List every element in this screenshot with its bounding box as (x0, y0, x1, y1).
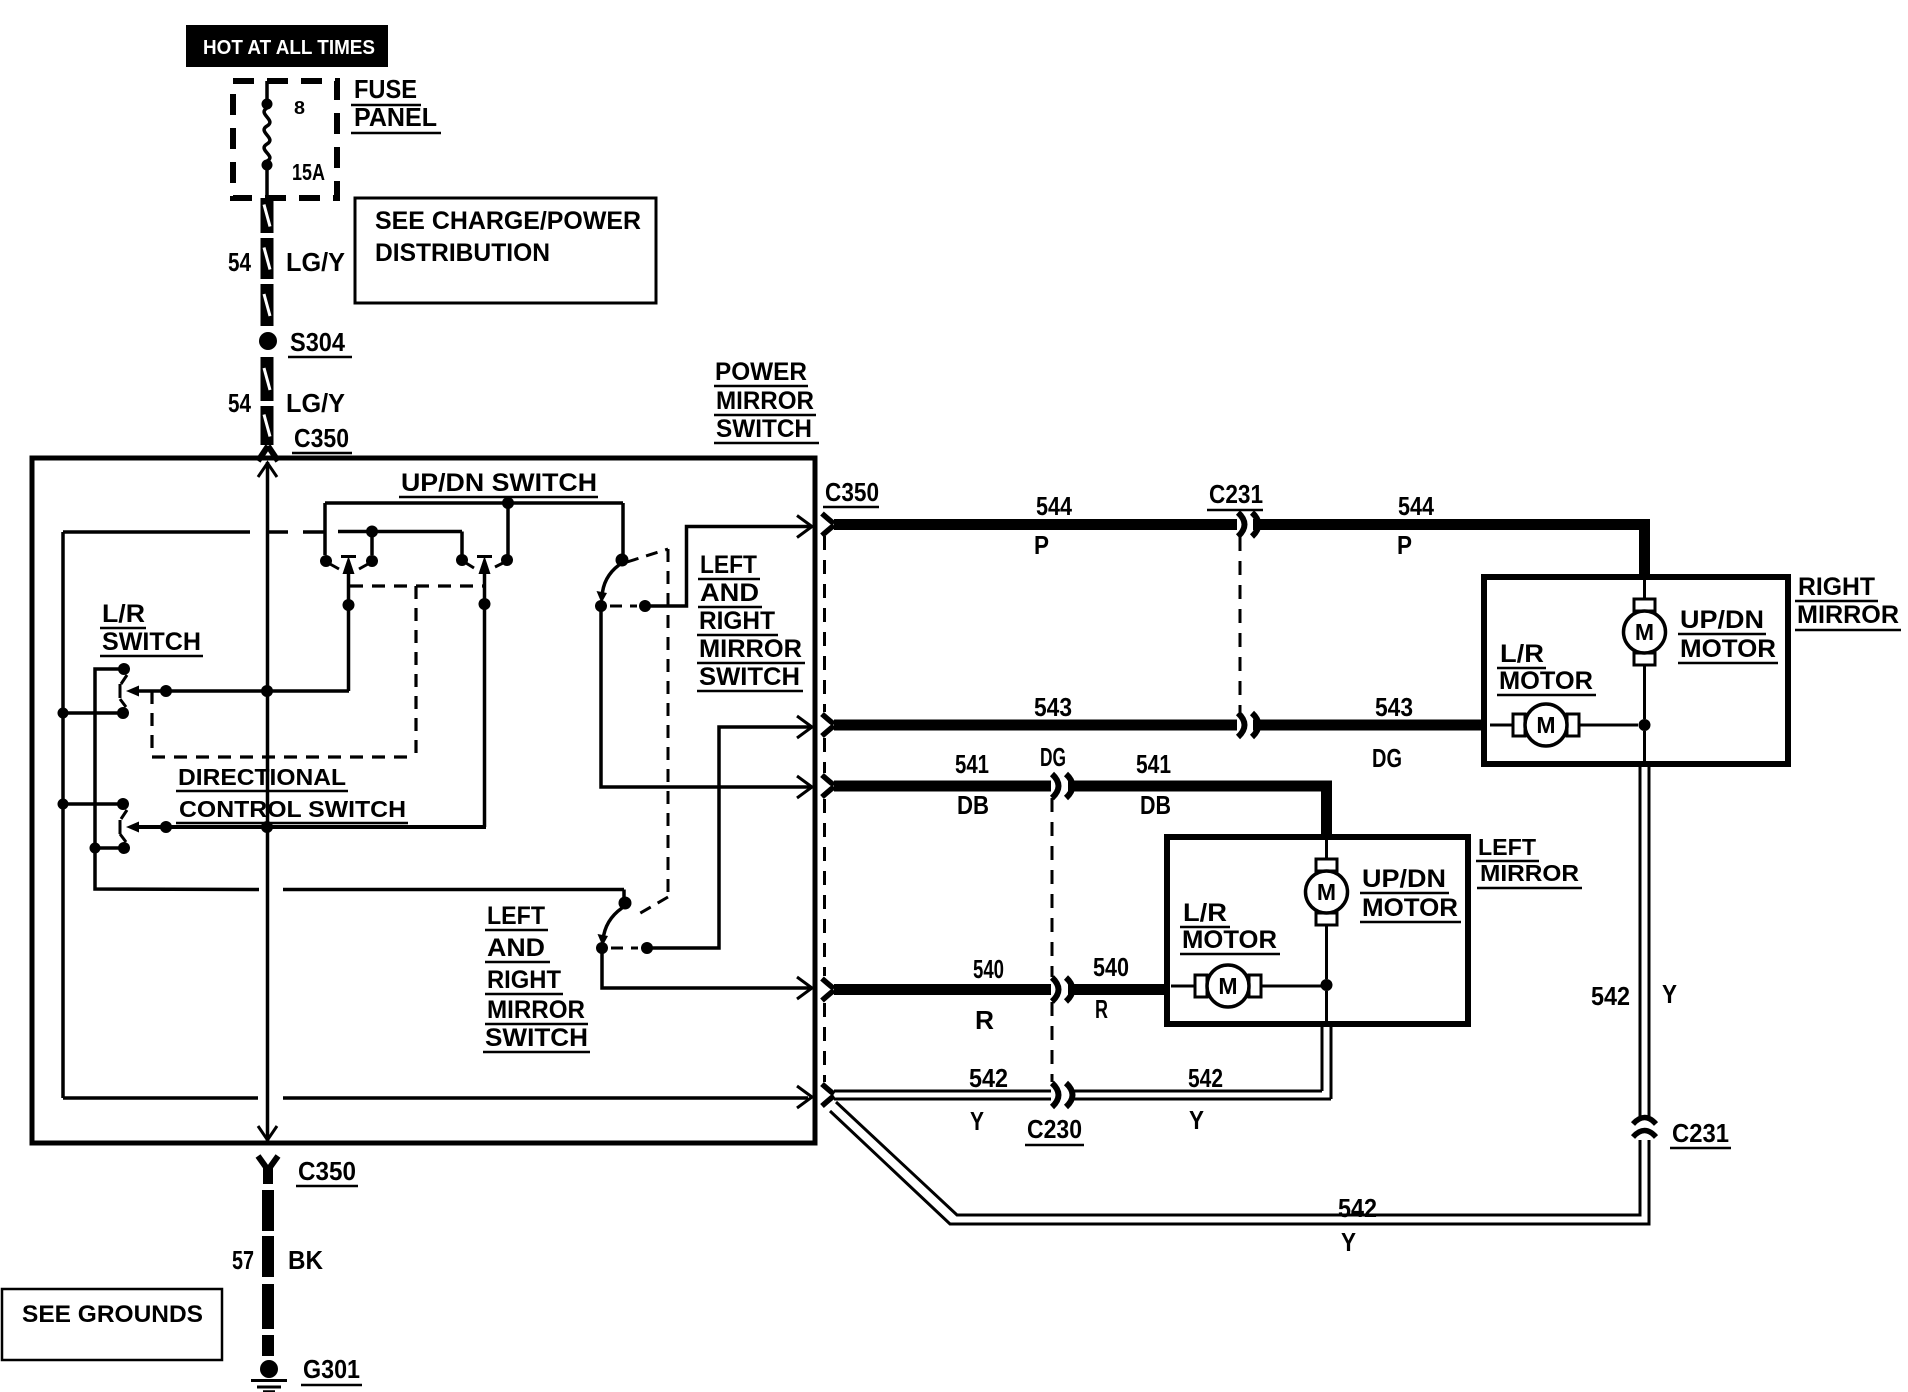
svg-text:SWITCH: SWITCH (102, 628, 201, 656)
svg-text:R: R (975, 1005, 994, 1035)
svg-text:DG: DG (1040, 742, 1066, 772)
svg-text:SEE CHARGE/POWER: SEE CHARGE/POWER (375, 207, 641, 235)
svg-text:DISTRIBUTION: DISTRIBUTION (375, 239, 550, 267)
svg-text:C350: C350 (825, 477, 879, 507)
svg-text:C231: C231 (1672, 1118, 1729, 1148)
svg-text:LG/Y: LG/Y (286, 247, 345, 277)
svg-text:RIGHT: RIGHT (1798, 573, 1875, 601)
svg-text:AND: AND (487, 934, 545, 962)
svg-text:541: 541 (1136, 749, 1171, 779)
svg-text:541: 541 (955, 749, 989, 779)
svg-text:543: 543 (1375, 692, 1413, 722)
svg-text:C350: C350 (298, 1156, 356, 1186)
svg-text:UP/DN: UP/DN (1680, 606, 1764, 634)
svg-text:542: 542 (1591, 981, 1630, 1011)
svg-text:L/R: L/R (1183, 899, 1227, 927)
svg-text:M: M (1536, 712, 1555, 738)
svg-text:Y: Y (1341, 1227, 1356, 1257)
svg-text:544: 544 (1036, 491, 1072, 521)
svg-text:MOTOR: MOTOR (1499, 667, 1593, 695)
svg-text:Y: Y (1662, 979, 1677, 1009)
svg-text:P: P (1034, 530, 1049, 560)
svg-text:15A: 15A (292, 159, 325, 185)
svg-text:MIRROR: MIRROR (1797, 601, 1899, 629)
svg-text:MIRROR: MIRROR (699, 635, 802, 663)
svg-text:543: 543 (1034, 692, 1072, 722)
svg-text:SWITCH: SWITCH (699, 663, 800, 691)
svg-text:AND: AND (700, 579, 759, 607)
svg-text:CONTROL SWITCH: CONTROL SWITCH (179, 796, 406, 822)
svg-text:MIRROR: MIRROR (716, 387, 814, 415)
svg-text:PANEL: PANEL (354, 102, 437, 132)
svg-text:P: P (1397, 530, 1412, 560)
svg-text:MIRROR: MIRROR (1480, 860, 1579, 886)
svg-text:BK: BK (288, 1245, 323, 1275)
svg-text:540: 540 (973, 954, 1004, 984)
svg-text:SWITCH: SWITCH (716, 415, 812, 443)
svg-text:LEFT: LEFT (487, 902, 545, 930)
svg-text:C231: C231 (1209, 479, 1263, 509)
svg-text:54: 54 (228, 247, 251, 277)
svg-text:DB: DB (957, 790, 989, 820)
svg-text:54: 54 (228, 388, 251, 418)
svg-text:DB: DB (1140, 790, 1171, 820)
svg-text:57: 57 (232, 1245, 254, 1275)
svg-text:FUSE: FUSE (354, 74, 417, 104)
svg-text:L/R: L/R (1500, 640, 1544, 668)
svg-text:LEFT: LEFT (700, 551, 757, 579)
svg-text:542: 542 (969, 1063, 1008, 1093)
svg-text:C350: C350 (294, 423, 349, 453)
svg-text:R: R (1095, 994, 1108, 1024)
svg-text:Y: Y (1189, 1105, 1204, 1135)
svg-text:8: 8 (294, 98, 305, 118)
svg-text:HOT AT ALL TIMES: HOT AT ALL TIMES (203, 37, 375, 59)
svg-text:SWITCH: SWITCH (485, 1024, 588, 1052)
svg-text:L/R: L/R (102, 600, 145, 628)
svg-text:M: M (1317, 879, 1336, 905)
svg-text:542: 542 (1338, 1193, 1377, 1223)
svg-text:POWER: POWER (715, 358, 807, 386)
svg-text:RIGHT: RIGHT (487, 966, 561, 994)
svg-text:M: M (1635, 619, 1654, 645)
svg-text:Y: Y (970, 1106, 984, 1136)
svg-text:UP/DN SWITCH: UP/DN SWITCH (401, 469, 597, 497)
svg-text:DG: DG (1372, 743, 1402, 773)
svg-text:SEE GROUNDS: SEE GROUNDS (22, 1301, 203, 1328)
svg-text:MIRROR: MIRROR (487, 996, 585, 1024)
svg-text:540: 540 (1093, 952, 1129, 982)
svg-text:C230: C230 (1027, 1114, 1082, 1144)
svg-text:G301: G301 (303, 1354, 360, 1384)
svg-text:542: 542 (1188, 1063, 1223, 1093)
svg-text:M: M (1218, 973, 1237, 999)
svg-text:S304: S304 (290, 327, 345, 357)
svg-text:MOTOR: MOTOR (1362, 894, 1458, 922)
svg-text:DIRECTIONAL: DIRECTIONAL (178, 764, 346, 790)
svg-text:MOTOR: MOTOR (1182, 926, 1277, 954)
svg-text:LEFT: LEFT (1478, 834, 1536, 860)
svg-text:UP/DN: UP/DN (1362, 865, 1446, 893)
svg-text:RIGHT: RIGHT (699, 607, 775, 635)
svg-text:LG/Y: LG/Y (286, 388, 345, 418)
svg-text:MOTOR: MOTOR (1680, 635, 1776, 663)
svg-text:544: 544 (1398, 491, 1434, 521)
